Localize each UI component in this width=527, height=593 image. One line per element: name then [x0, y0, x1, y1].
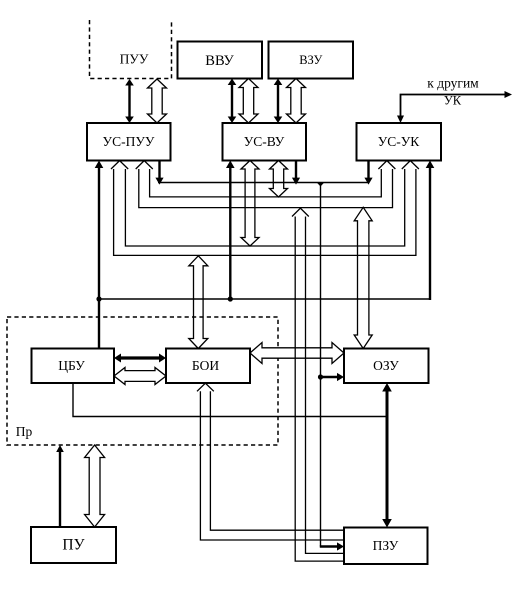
junction dot УСВУ line — [228, 296, 233, 301]
svg-text:ПУ: ПУ — [62, 537, 84, 554]
svg-text:ВВУ: ВВУ — [205, 53, 234, 69]
hollow arrow ВВУ-УСВУ — [239, 79, 258, 124]
hollow elbow ПЗУ to bus B — [292, 208, 309, 216]
thick stub УСПУУ down — [155, 161, 163, 185]
thick arrow ЦБУ-БОИ — [114, 354, 166, 363]
box ВЗУ — [269, 42, 354, 79]
wire ЦБУ to ОЗУ-ПЗУ line — [73, 383, 386, 417]
svg-text:ПЗУ: ПЗУ — [373, 538, 399, 553]
hollow elbow ПЗУ to БОИ — [197, 383, 214, 391]
box БОИ — [166, 349, 250, 384]
hollow arrow Пр-ПУ — [85, 445, 105, 527]
junction head x320 — [317, 183, 324, 187]
arrow к другим УК — [401, 95, 506, 117]
thick arrow ВЗУ-УСВУ — [274, 79, 283, 124]
thick arrow ПУУ-УСПУУ — [125, 79, 134, 123]
svg-text:УС-ВУ: УС-ВУ — [244, 134, 285, 149]
svg-text:к другим: к другим — [427, 76, 479, 91]
thick arrow into ПЗУ left — [320, 542, 344, 550]
thick arrow ВВУ-УСВУ — [228, 79, 237, 124]
thick arrow ПУ-Пр — [56, 445, 64, 527]
hollow arrow УСВУ to bus B — [270, 161, 288, 198]
hollow bus A УСПУУ-УСУК — [111, 161, 128, 169]
hollow arrow ВЗУ-УСВУ — [287, 79, 306, 124]
box УС-ВУ — [223, 123, 307, 161]
junction dot ОЗУ line — [318, 374, 323, 379]
svg-text:ОЗУ: ОЗУ — [373, 358, 399, 373]
box ЦБУ — [32, 349, 115, 384]
svg-text:УК: УК — [444, 94, 462, 108]
hollow arrow УСВУ to bus A — [241, 161, 259, 247]
hollow bus arrow БОИ-top to bus A — [189, 256, 208, 349]
thick arrow ОЗУ-ПЗУ — [382, 383, 392, 528]
thick stub УСУК down — [364, 161, 372, 185]
box ПЗУ — [344, 528, 428, 565]
thick arrow into ОЗУ left — [321, 373, 345, 381]
box ПУ — [31, 527, 116, 563]
box УС-УК — [357, 123, 442, 161]
hollow arrow ПУУ-УСПУУ — [148, 79, 167, 123]
svg-text:ПУУ: ПУУ — [120, 52, 149, 67]
junction dot — [96, 296, 101, 301]
svg-text:УС-УК: УС-УК — [378, 134, 421, 149]
thick arrow УСУК return up — [426, 161, 435, 301]
box УС-ПУУ — [87, 123, 171, 161]
box ВВУ — [178, 42, 263, 79]
svg-text:ВЗУ: ВЗУ — [299, 53, 322, 67]
wire УСУК return line y299 — [99, 298, 430, 300]
thick arrow УСВУ down to line — [226, 161, 235, 300]
wire control bus horizontal — [158, 182, 369, 184]
hollow arrow БОИ-ОЗУ — [250, 343, 344, 364]
hollow bus B УСПУУ-УСУК — [136, 161, 153, 169]
box ОЗУ — [344, 349, 429, 384]
svg-text:БОИ: БОИ — [192, 358, 219, 373]
wire control bus vertical x320 — [320, 183, 322, 547]
hollow arrow ОЗУ to bus B — [354, 207, 372, 348]
hollow arrow ЦБУ-БОИ — [114, 368, 166, 385]
thick stub УСВУ down — [292, 161, 300, 185]
dashed box Пр — [7, 317, 278, 445]
svg-text:УС-ПУУ: УС-ПУУ — [103, 134, 155, 149]
svg-text:Пр: Пр — [16, 424, 33, 439]
thick arrow УСПУУ-ЦБУ — [95, 161, 104, 349]
dashed box ПУУ (open top) — [90, 20, 172, 79]
svg-text:ЦБУ: ЦБУ — [58, 358, 85, 373]
